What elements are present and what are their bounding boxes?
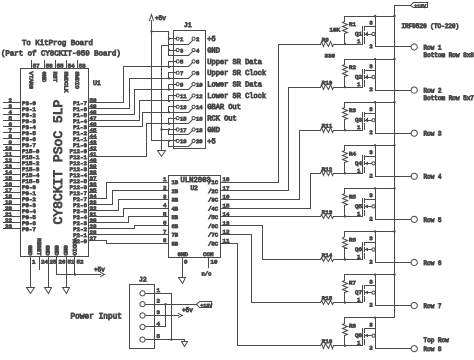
- svg-text:51: 51: [68, 259, 75, 266]
- svg-text:3: 3: [369, 235, 373, 242]
- svg-text:3: 3: [180, 47, 183, 54]
- U1 pin 19 P0-3 stub: [4, 204, 21, 206]
- J1 pin 7 wire: [169, 72, 177, 74]
- U1 pin 14 P15-4 stub: [4, 174, 21, 176]
- svg-text:SWDIO: SWDIO: [73, 72, 80, 90]
- svg-text:2: 2: [369, 259, 373, 266]
- U1 pin 57 VTARG stub: [31, 61, 33, 69]
- svg-text:6: 6: [196, 59, 199, 66]
- Q6 vertical source-drain lead: [375, 233, 377, 263]
- svg-text:R16: R16: [322, 338, 333, 345]
- wire drain Q6 to Row 6: [376, 262, 412, 264]
- Row 2 output circle: [411, 87, 417, 93]
- svg-text:3B: 3B: [172, 197, 179, 204]
- svg-text:53: 53: [79, 63, 86, 70]
- svg-text:3: 3: [163, 193, 167, 200]
- junction source Q7: [374, 273, 376, 275]
- svg-text:4: 4: [196, 47, 200, 54]
- J1 pin 13 jog: [168, 107, 170, 113]
- svg-text:26: 26: [59, 259, 66, 266]
- J1 pin 7 circle: [176, 71, 179, 74]
- svg-text:Row 4: Row 4: [424, 174, 442, 181]
- U2 pin 15 stub: [221, 208, 233, 210]
- wire U2 /4C to R12: [233, 174, 321, 209]
- Q7 body arrow: [366, 292, 368, 294]
- U1 pin 7 P3-5 stub: [4, 132, 21, 134]
- svg-text:1: 1: [357, 210, 361, 217]
- ground symbol at U2 pin 9: [179, 278, 186, 284]
- svg-text:56: 56: [46, 63, 53, 70]
- J1 pin 4 bent wire: [169, 52, 193, 56]
- svg-text:8: 8: [163, 237, 167, 244]
- svg-text:7: 7: [180, 70, 183, 77]
- svg-text:Row 6: Row 6: [424, 260, 442, 267]
- svg-text:+5v: +5v: [94, 267, 105, 274]
- U2 pin 11 stub: [221, 243, 233, 245]
- J1 pin 5 circle: [176, 60, 179, 63]
- resistor R16: [321, 344, 334, 349]
- svg-text:+5: +5: [207, 138, 215, 146]
- R8 bottom lead: [344, 336, 346, 346]
- J1 pin 13 wire: [169, 106, 177, 108]
- svg-text:GND: GND: [207, 127, 220, 135]
- svg-text:Q3: Q3: [355, 117, 362, 124]
- U1 pin 3 P3-1 stub: [4, 108, 21, 110]
- J1 pin 8 bent wire: [169, 75, 193, 79]
- svg-text:18: 18: [196, 127, 203, 134]
- Row 4 output circle: [411, 173, 417, 179]
- svg-text:6: 6: [163, 220, 167, 227]
- svg-text:2: 2: [369, 302, 373, 309]
- transistor Q5 gate bar: [362, 199, 364, 217]
- svg-text:R11: R11: [322, 123, 333, 130]
- Q2 source line: [365, 70, 376, 72]
- wire drain Q5 to Row 5: [376, 219, 412, 221]
- wire +5 rail to J1 pins 19/20: [152, 140, 169, 142]
- svg-text:/3C: /3C: [208, 197, 219, 204]
- U1 pin 48 P1-5 stub: [89, 114, 97, 116]
- J1 pin 19 circle: [176, 139, 179, 142]
- wire drain Q4 to Row 4: [376, 176, 412, 178]
- ground symbol at U1 pin 1: [27, 288, 35, 294]
- Q5 channel mid segment: [364, 205, 366, 209]
- svg-text:U1: U1: [93, 80, 101, 87]
- J1 pin 1 circle: [176, 37, 179, 40]
- svg-text:57: 57: [33, 63, 40, 70]
- svg-text:Upper SR Clock: Upper SR Clock: [207, 70, 266, 78]
- J1 pin pair 7 jog: [168, 73, 170, 79]
- Q2 body arrow: [366, 76, 368, 79]
- Q4 body line: [365, 163, 372, 165]
- U1 pin 21 P0-5 stub: [4, 216, 21, 218]
- Q2 channel top segment: [364, 70, 366, 74]
- svg-text:Row 8: Row 8: [424, 346, 442, 353]
- wire U1 P2-4 to U2 pin 4: [97, 209, 161, 217]
- J1 pin 15 wire: [169, 118, 177, 120]
- svg-text:Q5: Q5: [355, 203, 362, 210]
- svg-text:16: 16: [196, 115, 203, 122]
- Q6 body line: [365, 249, 372, 251]
- wire source row Q8: [345, 317, 395, 319]
- U1 pin 46 P1-3 stub: [89, 126, 97, 128]
- U1 pin 38 P12-4 stub: [89, 174, 97, 176]
- U1 pin 1 GND stub: [30, 257, 32, 288]
- svg-text:Row 7: Row 7: [424, 303, 442, 310]
- svg-text:GND: GND: [178, 251, 189, 258]
- U1 pin 25 GND stub: [48, 257, 50, 288]
- wire R11 to gate node: [334, 130, 363, 132]
- wire R10 to gate node: [334, 87, 363, 89]
- +12V power flag top: [411, 3, 428, 8]
- svg-text:16: 16: [223, 194, 230, 201]
- J1 pin 17 wire: [169, 129, 177, 131]
- junction source Q1: [374, 15, 376, 17]
- Q6 body arrow: [366, 249, 368, 251]
- junction gate node R2: [344, 86, 346, 88]
- U1 pin 16 P0-0 stub: [4, 186, 21, 188]
- svg-text:1: 1: [357, 167, 361, 174]
- wire U1 P2-6 to U2 pin 2: [97, 191, 161, 205]
- U1 pin 42 P12-0 stub: [89, 150, 97, 152]
- junction source Q5: [374, 187, 376, 189]
- transistor Q8 gate bar: [362, 329, 364, 346]
- svg-text:+5v: +5v: [155, 15, 166, 22]
- wire J2 pin2 to +12V: [146, 304, 197, 306]
- Q5 body line: [365, 206, 372, 208]
- Q3 body arrow: [366, 119, 368, 122]
- R5 bottom lead: [344, 206, 346, 217]
- svg-text:Q6: Q6: [355, 246, 362, 253]
- Q8 channel bottom segment: [364, 340, 366, 345]
- svg-text:+12V: +12V: [414, 3, 426, 9]
- Q1 channel top segment: [364, 27, 366, 31]
- svg-text:2: 2: [196, 36, 199, 43]
- junction rail stage 7: [393, 273, 395, 275]
- junction source Q6: [374, 230, 376, 232]
- junction source Q8: [374, 317, 376, 319]
- svg-text:GND: GND: [26, 245, 33, 256]
- U2 pin 17 stub: [221, 190, 233, 192]
- R5 top lead: [344, 189, 346, 194]
- svg-text:52: 52: [77, 259, 84, 266]
- Q5 vertical source-drain lead: [375, 190, 377, 220]
- U1 pin 50 P1-7 stub: [89, 102, 97, 104]
- wire U2 /3C to R11: [233, 131, 321, 200]
- resistor R7: [343, 281, 348, 293]
- R1 bottom lead: [344, 34, 346, 45]
- svg-text:5: 5: [163, 211, 167, 218]
- Q4 body circle: [372, 162, 375, 165]
- R7 bottom lead: [344, 293, 346, 303]
- R3 bottom lead: [344, 120, 346, 131]
- +5v arrow at U1 bottom: [101, 273, 105, 277]
- U1 pin 12 P15-2 stub: [4, 162, 21, 164]
- connector J2 body: [130, 285, 155, 349]
- Q6 channel bottom segment: [364, 254, 366, 259]
- Q3 vertical source-drain lead: [375, 104, 377, 134]
- Q7 source line: [365, 285, 376, 287]
- svg-text:8: 8: [196, 70, 199, 77]
- Row 7 output circle: [411, 303, 417, 309]
- wire R14 to gate node: [334, 259, 363, 261]
- resistor R2: [343, 65, 348, 77]
- svg-text:24: 24: [41, 259, 48, 266]
- transistor Q1 gate bar: [362, 27, 364, 45]
- junction rail stage 3: [393, 101, 395, 103]
- U1 pin 27 P2-0 stub: [89, 240, 97, 242]
- junction gate node R3: [344, 129, 346, 131]
- svg-text:23: 23: [5, 223, 12, 230]
- svg-text:54: 54: [68, 63, 75, 70]
- svg-text:2: 2: [369, 129, 373, 136]
- wire U2 /5C to R13: [233, 216, 321, 218]
- wire J2 pin5 to ground: [146, 340, 185, 342]
- Q1 channel mid segment: [364, 33, 366, 36]
- R6 top lead: [344, 232, 346, 237]
- Q1 vertical source-drain lead: [375, 17, 377, 47]
- svg-text:55: 55: [57, 63, 64, 70]
- junction gate node R1: [344, 43, 346, 45]
- svg-text:Q8: Q8: [355, 332, 362, 339]
- svg-text:Lower SR Data: Lower SR Data: [207, 82, 262, 90]
- junction gate node R6: [344, 258, 346, 260]
- svg-text:VDDIO: VDDIO: [71, 238, 78, 256]
- svg-text:3: 3: [369, 20, 373, 27]
- junction +5 rail: [150, 30, 152, 32]
- resistor R1: [343, 22, 348, 34]
- J1 pin 12 bent wire: [169, 97, 193, 101]
- svg-text:9: 9: [184, 259, 188, 266]
- J1 pin 11 wire: [169, 95, 177, 97]
- svg-text:/6C: /6C: [208, 223, 219, 230]
- svg-text:3: 3: [369, 321, 373, 328]
- wire +5 rail: [151, 21, 153, 141]
- junction source Q4: [374, 144, 376, 146]
- U2 pin 4 stub: [161, 208, 169, 210]
- svg-text:Power Input: Power Input: [71, 314, 122, 322]
- transistor Q3 gate bar: [362, 113, 364, 131]
- J1 pin 3 wire: [169, 50, 177, 52]
- Q6 source line: [365, 242, 376, 244]
- J1 pin 12 circle: [192, 94, 195, 97]
- junction J1 pin1: [168, 38, 170, 40]
- J1 pin 5 wire: [169, 61, 177, 63]
- junction source Q2: [374, 58, 376, 60]
- svg-text:4B: 4B: [172, 205, 179, 212]
- U1 pin 36 P12-6 stub: [89, 186, 97, 188]
- R1 top lead: [344, 17, 346, 22]
- svg-text:18: 18: [223, 176, 230, 183]
- svg-text:3: 3: [369, 192, 373, 199]
- svg-text:+12V: +12V: [200, 303, 212, 309]
- svg-text:11: 11: [223, 237, 230, 244]
- U1 pin 11 P15-1 stub: [4, 156, 21, 158]
- svg-text:Row 3: Row 3: [424, 131, 442, 138]
- wire drain Q3 to Row 3: [376, 133, 412, 135]
- junction J1 pin14 exit: [168, 111, 170, 113]
- U2 pin 18 stub: [221, 182, 233, 184]
- Q7 body line: [365, 292, 372, 294]
- U2 pin 6 stub: [161, 225, 169, 227]
- wire U1 P2-1 to U2 pin 7: [97, 234, 161, 236]
- IC U1 CY8CKIT PSoC 5LP body: [21, 69, 89, 257]
- Q3 channel mid segment: [364, 119, 366, 122]
- Q1 source line: [365, 26, 376, 28]
- svg-text:To KitProg Board: To KitProg Board: [22, 40, 93, 48]
- svg-text:Top Row: Top Row: [424, 337, 450, 344]
- Q1 body line: [365, 34, 372, 36]
- wire U2 /2C to R10: [233, 88, 321, 191]
- wire +5 rail to J1 pins 1/2: [152, 32, 169, 45]
- svg-text:R1: R1: [349, 21, 356, 28]
- U1 pin 5 P3-3 stub: [4, 120, 21, 122]
- J1 pin 13 circle: [176, 105, 179, 108]
- svg-text:IRF9520 (TO-220): IRF9520 (TO-220): [402, 23, 460, 30]
- resistor R15: [321, 301, 334, 305]
- U2 pin 3 stub: [161, 199, 169, 201]
- wire U1 P12-1 to J1 pin15 RCK: [97, 124, 169, 157]
- wire U2 /1C to R9: [233, 45, 321, 183]
- svg-text:10K: 10K: [330, 27, 341, 34]
- ground symbol at U1 pin 25: [45, 288, 52, 294]
- Q4 source line: [365, 156, 376, 158]
- J1 pin pair 9 jog: [168, 85, 170, 90]
- J1 pin 20 circle: [192, 139, 195, 142]
- svg-text:5: 5: [180, 59, 183, 66]
- svg-text:12: 12: [223, 229, 230, 236]
- J1 pin 17 jog: [168, 130, 170, 135]
- ground symbol at U1 pin 51: [63, 288, 70, 294]
- wire drain Q7 to Row 7: [376, 305, 412, 307]
- resistor R14: [321, 258, 334, 262]
- U1 pin 51 GND stub: [66, 257, 68, 288]
- J1 pin 1 wire: [169, 38, 177, 40]
- Q7 channel bottom segment: [364, 297, 366, 302]
- transistor Q4 gate bar: [362, 156, 364, 174]
- svg-text:Bottom Row 8x8: Bottom Row 8x8: [424, 52, 474, 59]
- J1 pin 18 bent wire: [169, 131, 193, 135]
- U1 pin 53 SWDIO stub: [77, 61, 79, 69]
- svg-text:2: 2: [157, 298, 161, 305]
- Q5 body arrow: [366, 206, 368, 208]
- U1 pin 22 P0-6 stub: [4, 222, 21, 224]
- ground symbol below J1: [158, 151, 166, 157]
- svg-text:/4C: /4C: [208, 205, 219, 212]
- Q2 body circle: [372, 76, 375, 79]
- svg-text:25: 25: [50, 259, 57, 266]
- svg-text:R3: R3: [349, 107, 356, 114]
- svg-text:330: 330: [325, 53, 336, 60]
- svg-text:1: 1: [357, 124, 361, 131]
- U1 pin 6 P3-4 stub: [4, 126, 21, 128]
- svg-text:7B: 7B: [172, 232, 179, 239]
- Q8 body line: [365, 335, 372, 337]
- wire U1 P1-5 to J1 pin 9: [97, 90, 169, 115]
- svg-text:1: 1: [357, 81, 361, 88]
- svg-text:2: 2: [369, 86, 373, 93]
- J1 pin 3 circle: [176, 48, 179, 51]
- svg-text:J1: J1: [184, 22, 192, 29]
- J1 pin 10 bent wire: [169, 86, 193, 90]
- U1 pin 32 P2-5 stub: [89, 210, 97, 212]
- Q4 body arrow: [366, 163, 368, 165]
- svg-text:14: 14: [223, 211, 230, 218]
- junction J1 pin 8 exit: [168, 77, 170, 79]
- svg-text:GND: GND: [207, 47, 220, 55]
- J1 pin 19 wire: [169, 140, 177, 142]
- Q7 channel mid segment: [364, 291, 366, 295]
- transistor Q7 gate bar: [362, 286, 364, 303]
- svg-text:R6: R6: [349, 237, 356, 244]
- R2 top lead: [344, 60, 346, 65]
- svg-text:1: 1: [180, 36, 184, 43]
- J1 pin 16 bent wire: [169, 120, 193, 124]
- svg-text:GND: GND: [53, 245, 60, 256]
- U1 pin 33 P2-6 stub: [89, 204, 97, 206]
- svg-text:14: 14: [196, 104, 203, 111]
- U2 pin 16 stub: [221, 199, 233, 201]
- Q5 source line: [365, 199, 376, 201]
- Q6 channel top segment: [364, 243, 366, 246]
- wire GND rail to J1 pins 3/4: [162, 46, 169, 56]
- wire J2 pin1: [146, 294, 172, 340]
- U1 pin 15 P15-5 stub: [4, 180, 21, 182]
- U1 pin 17 P0-1 stub: [4, 192, 21, 194]
- wire U1 P1-3 to J1 pin13 GBAR: [97, 113, 169, 127]
- svg-text:1: 1: [357, 254, 361, 261]
- wire R12 to gate node: [334, 173, 363, 175]
- svg-text:8B: 8B: [172, 240, 179, 247]
- svg-text:RCK Out: RCK Out: [207, 116, 236, 124]
- svg-text:27: 27: [90, 235, 97, 242]
- junction gate node R4: [344, 172, 346, 174]
- wire R13 to gate node: [334, 216, 363, 218]
- junction GND rail pin17: [160, 128, 162, 130]
- svg-text:10: 10: [211, 259, 218, 266]
- U1 pin 35 P12-7 stub: [89, 192, 97, 194]
- junction J1 pin3: [168, 49, 170, 51]
- svg-text:R13: R13: [322, 209, 333, 216]
- wire U2 /7C to R15: [233, 235, 321, 303]
- Q8 source line: [365, 328, 376, 330]
- svg-text:Lower SR Clock: Lower SR Clock: [207, 93, 266, 101]
- svg-text:20: 20: [196, 138, 203, 145]
- Q4 channel top segment: [364, 156, 366, 160]
- wire source row Q5: [345, 188, 395, 190]
- svg-text:RST: RST: [51, 72, 58, 83]
- svg-text:2: 2: [369, 43, 373, 50]
- junction rail stage 2: [393, 58, 395, 60]
- junction J2 pin2 node: [164, 303, 166, 305]
- U1 pin 9 P3-7 stub: [4, 144, 21, 146]
- svg-text:Q2: Q2: [355, 74, 362, 81]
- U2 pin 1 stub: [161, 182, 169, 184]
- Q6 body circle: [372, 248, 375, 251]
- junction pin52/+5v: [74, 273, 76, 275]
- Q8 body circle: [372, 334, 375, 337]
- U1 pin 54 SWDCLK stub: [66, 61, 68, 69]
- U1 pin 24 RESET stub n/c: [39, 257, 41, 270]
- svg-text:R9: R9: [322, 37, 329, 44]
- wire J2 pin2 to pin4: [146, 305, 166, 327]
- resistor R5: [343, 194, 348, 206]
- svg-text:R4: R4: [349, 150, 356, 157]
- wire drain Q8 to Row 8: [376, 348, 412, 350]
- svg-text:J2: J2: [139, 277, 147, 284]
- junction J1 pin 10 exit: [168, 88, 170, 90]
- svg-text:1: 1: [357, 297, 361, 304]
- U2 pin 9 GND stub: [182, 258, 184, 278]
